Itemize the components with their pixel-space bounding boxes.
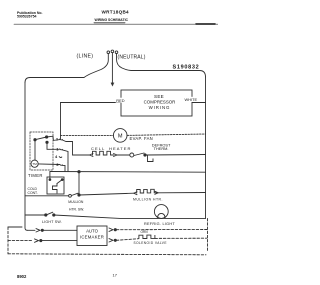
wire label WHITE xyxy=(184,97,200,102)
wire contact C down to terminal 1 xyxy=(47,142,60,149)
wire mullion switch to heater xyxy=(79,193,134,195)
ground prong wire xyxy=(111,53,113,83)
wire left bus corner into icemaker row xyxy=(28,229,36,231)
svg-text:8902: 8902 xyxy=(17,274,27,279)
svg-text:5995326754: 5995326754 xyxy=(17,14,37,18)
defrost thermostat terminal circle xyxy=(130,153,134,157)
mullion heater element xyxy=(137,189,158,193)
wire contact A down to timer motor xyxy=(34,140,36,161)
label DEFROST THERM xyxy=(152,142,171,151)
wire row2 connector to icemaker box xyxy=(42,240,77,242)
timer terminal 1 xyxy=(60,148,63,151)
cold control contact dot right xyxy=(61,179,63,181)
svg-text:4: 4 xyxy=(55,154,58,159)
svg-text:ORN: ORN xyxy=(141,230,149,234)
svg-text:CELL HEATER: CELL HEATER xyxy=(91,146,132,151)
wire evap fan (dashed) left xyxy=(61,134,114,136)
plug prong circle right xyxy=(115,51,118,54)
bottom dashed boundary wire xyxy=(8,254,206,255)
cold control bellows staircase xyxy=(53,184,58,194)
svg-text:LIGHT SW.: LIGHT SW. xyxy=(42,220,62,224)
svg-text:ICEMAKER: ICEMAKER xyxy=(80,235,104,240)
wire line prong to left bus xyxy=(25,54,108,83)
svg-text:MULLION: MULLION xyxy=(68,200,84,204)
wire defrost thermostat to right bus xyxy=(146,154,206,157)
wire compressor box to right bus xyxy=(192,102,206,104)
row2 connector dot xyxy=(40,240,42,242)
mullion switch dot xyxy=(78,194,80,196)
light bulb filament loop xyxy=(158,213,165,218)
timer contact dot C xyxy=(46,141,48,143)
svg-text:MULLION HTR.: MULLION HTR. xyxy=(133,197,163,201)
mullion switch lever xyxy=(72,193,79,195)
icemaker row1 right connector dot xyxy=(114,229,116,231)
icemaker row1 right connector arrow xyxy=(109,228,113,231)
timer terminal 4 xyxy=(59,156,62,159)
svg-text:2: 2 xyxy=(56,137,59,142)
icemaker row1 connector dot xyxy=(41,229,43,231)
wire connector to icemaker box xyxy=(43,229,77,231)
wire label RED xyxy=(116,98,127,103)
svg-text:REFRIG. LIGHT: REFRIG. LIGHT xyxy=(144,222,175,226)
light switch dot left xyxy=(45,214,47,216)
wire compressor feed vertical to timer terminal 2 xyxy=(60,103,62,140)
header rule right thick end xyxy=(196,23,215,25)
svg-text:WIRING: WIRING xyxy=(149,105,171,110)
evap fan motor M1 xyxy=(113,129,127,143)
svg-text:RED: RED xyxy=(116,98,124,103)
defrost thermostat capillary stub xyxy=(148,155,154,162)
svg-text:(NEUTRAL): (NEUTRAL) xyxy=(118,55,146,61)
timer terminal 3 xyxy=(60,163,63,166)
wire neutral row (to right bus) xyxy=(50,171,206,174)
cold control contact dot left xyxy=(49,179,51,181)
compressor box text xyxy=(144,94,176,110)
timer contact dot A xyxy=(34,139,36,141)
svg-text:17: 17 xyxy=(113,273,118,278)
header rule xyxy=(14,23,218,25)
header rule dark segment under title xyxy=(94,22,125,24)
row2 connector arrow xyxy=(35,239,39,242)
plug prong circle left xyxy=(107,51,110,54)
defrost thermostat lever xyxy=(134,153,144,156)
svg-text:TM: TM xyxy=(32,162,37,166)
wire contact B to terminal 2 xyxy=(47,136,60,140)
timer motor TM xyxy=(31,160,38,167)
wire icemaker row1 dashed to right bus xyxy=(116,229,207,231)
icemaker box xyxy=(77,226,107,246)
right bus wire (dashed lower) xyxy=(207,219,209,253)
mullion heater left arrow xyxy=(134,192,137,195)
svg-text:WHITE: WHITE xyxy=(185,97,198,102)
svg-text:S190832: S190832 xyxy=(173,65,200,71)
ground arrowhead xyxy=(111,83,114,86)
wire row2 dashed from bracket xyxy=(8,240,33,242)
cold control lever xyxy=(57,180,62,184)
solenoid valve coil xyxy=(139,235,155,239)
left dashed bracket vertical xyxy=(7,227,9,254)
svg-text:CONT.: CONT. xyxy=(28,191,38,195)
wire solenoid dashed to right bus xyxy=(155,237,207,239)
defrost heater right arrow xyxy=(114,154,118,157)
icemaker box text xyxy=(80,229,104,240)
defrost heater element (cell heater) xyxy=(93,151,115,155)
wire left bus to light switch xyxy=(25,214,45,216)
wire junction drop to mullion switch xyxy=(78,172,80,195)
left dashed bracket top arm xyxy=(8,226,22,228)
wire terminal 2 to defrost heater row xyxy=(62,140,89,155)
wire terminal 1 drop to neutral row xyxy=(62,150,68,172)
svg-text:SEE: SEE xyxy=(154,94,164,99)
wire light switch to lamp row xyxy=(54,215,206,218)
compressor box xyxy=(121,90,192,116)
wire heater to defrost thermostat xyxy=(117,154,130,156)
junction dot neutral row xyxy=(78,171,80,173)
wire left bus to mullion switch xyxy=(25,195,68,197)
timer switch arm xyxy=(35,137,47,140)
wire terminal 3 to neutral row xyxy=(62,165,65,171)
svg-text:M: M xyxy=(118,134,123,140)
light switch lever xyxy=(47,212,53,215)
defrost heater left arrow xyxy=(90,154,94,157)
header publication number text xyxy=(17,11,43,18)
left bus wire xyxy=(25,83,28,231)
svg-text:WIRING SCHEMATIC: WIRING SCHEMATIC xyxy=(95,18,129,22)
wire row2 dashed to solenoid xyxy=(116,239,138,241)
svg-text:SOLENOID VALVE: SOLENOID VALVE xyxy=(134,241,167,245)
cold control riser wire xyxy=(49,172,51,180)
wire compressor feed horizontal xyxy=(61,102,122,104)
plug prong circle middle xyxy=(111,50,114,53)
timer terminal 2 xyxy=(60,138,63,141)
right bus wire (solid) xyxy=(205,77,207,219)
wire timer motor to terminal 3 xyxy=(38,163,59,166)
defrost thermostat dot xyxy=(144,154,146,156)
timer contact dot B xyxy=(45,136,47,138)
svg-text:(LINE): (LINE) xyxy=(77,54,94,60)
wire evap fan (dashed) right to bus xyxy=(127,134,206,135)
row2 right connector arrow xyxy=(109,239,113,242)
svg-text:COMPRESSOR: COMPRESSOR xyxy=(144,100,176,105)
svg-text:HTR. SW.: HTR. SW. xyxy=(69,207,84,211)
svg-text:WRT18QB4: WRT18QB4 xyxy=(102,9,130,14)
timer box (dashed) xyxy=(30,132,53,170)
mullion switch terminal circle xyxy=(69,194,72,197)
label MULLION HTR. SW. xyxy=(68,200,84,212)
cold control box xyxy=(47,177,64,194)
light switch dot right xyxy=(53,214,55,216)
svg-text:TIMER: TIMER xyxy=(28,173,43,178)
row2 right connector dot xyxy=(114,239,116,241)
svg-text:EVAP. FAN: EVAP. FAN xyxy=(130,136,154,141)
mullion heater right arrow xyxy=(155,191,158,194)
wire mullion heater to right bus xyxy=(158,192,205,194)
label COLD CONT. xyxy=(28,187,38,195)
icemaker row1 connector arrow xyxy=(36,229,40,232)
refrigerator light bulb xyxy=(154,205,168,219)
svg-text:THERM.: THERM. xyxy=(154,146,169,151)
svg-text:AUTO: AUTO xyxy=(86,229,99,234)
wire neutral prong to right bus xyxy=(117,54,206,78)
